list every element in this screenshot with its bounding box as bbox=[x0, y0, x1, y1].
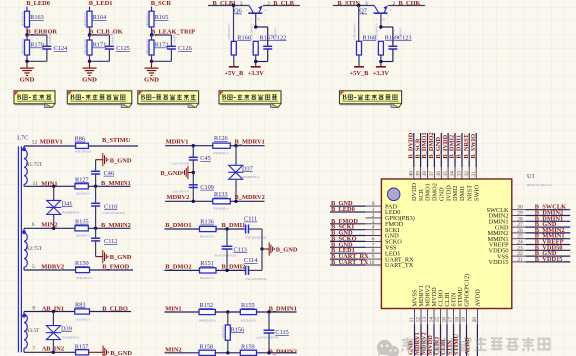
svg-text:B_DMI1: B_DMI1 bbox=[222, 222, 246, 229]
wire net B_SWCLK to pin 30 bbox=[526, 209, 571, 211]
pin 10 (UART_TX) bbox=[365, 264, 381, 266]
svg-text:2.2uF/10V/N0/X5R: 2.2uF/10V/N0/X5R bbox=[103, 212, 125, 215]
power +5V_B bbox=[229, 66, 239, 68]
wire B_DMO2 to R151 bbox=[165, 269, 200, 271]
wire net B_VREFP to pin 24 bbox=[526, 244, 571, 246]
wire R171 to ground node bbox=[89, 55, 91, 61]
svg-text:B_GND: B_GND bbox=[110, 157, 132, 164]
wire net B_UART_RX to pin 9 bbox=[330, 258, 365, 260]
svg-text:B_DMI2: B_DMI2 bbox=[449, 135, 456, 159]
svg-text:+3.3V: +3.3V bbox=[248, 70, 265, 77]
svg-text:5.1K(W)1%: 5.1K(W)1% bbox=[222, 325, 225, 339]
note N3 (yellow annotation) bbox=[138, 91, 199, 108]
wire pin7 to R157 bbox=[24, 351, 76, 353]
svg-text:MDRV2: MDRV2 bbox=[167, 194, 190, 201]
svg-text:B: B bbox=[70, 95, 75, 102]
wire C125 to ground node bbox=[108, 49, 110, 61]
svg-text:R156: R156 bbox=[231, 326, 245, 333]
svg-text:MIN1: MIN1 bbox=[165, 305, 181, 312]
svg-text:GPIO(PC12): GPIO(PC12) bbox=[464, 274, 471, 307]
wire pin11 to R127 bbox=[24, 185, 75, 187]
resistor R167 bbox=[253, 41, 258, 55]
pin 5 (GND) bbox=[365, 235, 381, 237]
svg-text:C115: C115 bbox=[275, 329, 288, 336]
resistor R168 bbox=[357, 41, 362, 55]
wire C124 to ground node bbox=[46, 49, 48, 61]
svg-text:UART_TX: UART_TX bbox=[385, 262, 414, 269]
svg-text:NRST: NRST bbox=[466, 185, 473, 201]
wire net B_MMIN1 to pin 25 bbox=[526, 238, 571, 240]
svg-text:47uF/10V/B0/X5R: 47uF/10V/B0/X5R bbox=[245, 278, 267, 281]
wire R158 to R159 bbox=[215, 352, 240, 354]
power +3.3V bbox=[376, 66, 386, 68]
pin 38 (DMO1) bbox=[427, 167, 429, 179]
svg-text:4.7K(1kW)1%: 4.7K(1kW)1% bbox=[353, 23, 356, 40]
svg-text:C111: C111 bbox=[244, 216, 257, 223]
svg-text:B_DMI2: B_DMI2 bbox=[222, 263, 246, 270]
power port B_GND (after R157) bbox=[89, 351, 96, 353]
svg-text:3: 3 bbox=[365, 1, 368, 7]
svg-text:B_DMIN1: B_DMIN1 bbox=[269, 305, 297, 312]
wire MIN1 to R152 bbox=[165, 311, 200, 313]
wire R150 to B_FMOD bbox=[90, 269, 134, 271]
capacitor C122 bbox=[263, 45, 272, 47]
pin 13 (MDRV2) bbox=[427, 309, 429, 325]
wire B_CLBI to Q6 pin 3 bbox=[208, 5, 249, 7]
wire MDRV1 bbox=[165, 145, 213, 147]
resistor R136 bbox=[200, 226, 217, 231]
wire MDRV2 bbox=[165, 200, 213, 202]
svg-text:3: 3 bbox=[240, 1, 243, 7]
capacitor C125 bbox=[105, 45, 114, 47]
svg-text:40: 40 bbox=[409, 171, 415, 177]
TVS diode D41 bbox=[53, 186, 55, 200]
wire MIN2 to R158 bbox=[165, 352, 200, 354]
svg-text:19: 19 bbox=[461, 317, 467, 323]
pin 19 (GPIO(PC12)) bbox=[466, 309, 468, 325]
wire C114 to B_GND corner bbox=[249, 269, 263, 271]
svg-text:B_GND: B_GND bbox=[160, 170, 182, 177]
svg-text:R171: R171 bbox=[93, 42, 107, 49]
svg-text:21: 21 bbox=[517, 257, 523, 263]
wire pin8 to R83 bbox=[24, 311, 75, 313]
capacitor C123 bbox=[388, 45, 397, 47]
wire net B_DMI1 to pin 33 bbox=[461, 133, 463, 167]
svg-text:U1: U1 bbox=[527, 173, 535, 180]
transformer L7C bbox=[17, 135, 43, 353]
svg-text:+3.3V: +3.3V bbox=[373, 70, 390, 77]
wire B_LED1 to R164 bbox=[89, 7, 91, 12]
svg-text:8: 8 bbox=[32, 306, 35, 312]
svg-text:1K(1kW)1%: 1K(1kW)1% bbox=[21, 11, 24, 26]
resistor R164 bbox=[87, 11, 92, 27]
wire net B_GND to pin 22 bbox=[526, 255, 571, 257]
svg-text:N2:75T: N2:75T bbox=[26, 246, 43, 252]
wire node to R171 bbox=[89, 35, 91, 40]
svg-text:1K(1kW)1%: 1K(1kW)1% bbox=[84, 11, 87, 26]
svg-text:C110: C110 bbox=[104, 203, 117, 210]
wire net AVDD from pin 20 bbox=[476, 324, 478, 356]
svg-text:B_MDRV1: B_MDRV1 bbox=[235, 138, 265, 145]
resistor R156 bbox=[227, 312, 229, 325]
pin 35 (IVDD) bbox=[447, 167, 449, 179]
svg-text:R83: R83 bbox=[75, 301, 86, 308]
note N5 (yellow annotation) bbox=[340, 91, 402, 108]
svg-text:20: 20 bbox=[472, 317, 478, 323]
svg-text:P6SMB6V8CA: P6SMB6V8CA bbox=[62, 211, 80, 214]
wire branch to C124 bbox=[27, 34, 47, 36]
ground GND bbox=[151, 61, 153, 68]
svg-text:PRC8AU4-QNA-A-E: PRC8AU4-QNA-A-E bbox=[527, 184, 552, 187]
wire D41 to MIN2 row bbox=[53, 214, 55, 228]
svg-text:D39: D39 bbox=[61, 325, 72, 332]
svg-text:R163: R163 bbox=[30, 14, 44, 21]
svg-text:AVDD: AVDD bbox=[475, 289, 482, 307]
svg-text:+5V_B: +5V_B bbox=[224, 70, 244, 77]
svg-text:B_NRST: B_NRST bbox=[463, 133, 470, 158]
winding N3:5T bbox=[24, 314, 27, 348]
svg-text:DMI2: DMI2 bbox=[452, 186, 459, 201]
svg-text:STIMU: STIMU bbox=[453, 334, 460, 355]
capacitor C124 bbox=[42, 45, 51, 47]
svg-text:R169: R169 bbox=[385, 34, 399, 41]
wire R152 to R155 bbox=[215, 311, 240, 313]
capacitor C111 bbox=[245, 225, 247, 234]
svg-text:7: 7 bbox=[32, 346, 35, 352]
pin 9 (UART_RX) bbox=[365, 258, 381, 260]
svg-text:R136: R136 bbox=[200, 219, 214, 226]
resistor R151 bbox=[200, 268, 217, 273]
wire net STIN from pin 17 bbox=[453, 324, 455, 356]
wire R126 to B_MDRV1 bbox=[230, 145, 264, 147]
svg-text:15: 15 bbox=[435, 317, 441, 323]
svg-text:=: = bbox=[251, 17, 253, 21]
wire base node to R169 and C123 bbox=[379, 25, 382, 28]
svg-text:4.7K(1kW)1%: 4.7K(1kW)1% bbox=[228, 23, 231, 40]
wire Q6 base lead bbox=[255, 13, 257, 27]
wire net B_VDD15 to pin 21 bbox=[526, 261, 571, 263]
pin 0 (PAD) bbox=[365, 205, 381, 207]
svg-text:B: B bbox=[17, 95, 22, 102]
winding N2:75T bbox=[24, 233, 27, 267]
wire net MDRV2 from pin 13 bbox=[427, 324, 429, 356]
svg-text:R166: R166 bbox=[237, 34, 251, 41]
svg-text:R164: R164 bbox=[93, 14, 107, 21]
svg-text:B_DMI1: B_DMI1 bbox=[456, 135, 463, 159]
svg-text:D41: D41 bbox=[62, 200, 73, 207]
svg-text:36: 36 bbox=[436, 171, 442, 177]
wire R167,C122 to +3.3V bbox=[267, 49, 269, 62]
wire net B_DMO1 to pin 38 bbox=[427, 133, 429, 167]
wire net MVDD from pin 14 bbox=[433, 324, 435, 356]
wire net B_GND to pin 0 bbox=[330, 205, 365, 207]
svg-text:38: 38 bbox=[422, 171, 428, 177]
svg-text:GND: GND bbox=[144, 77, 159, 84]
svg-text:R165: R165 bbox=[155, 14, 169, 21]
svg-text:B_SWIO: B_SWIO bbox=[470, 134, 477, 159]
pin 27 (GND) bbox=[512, 226, 526, 228]
pin 23 (VDD50) bbox=[512, 249, 526, 251]
svg-text:R127: R127 bbox=[75, 176, 89, 183]
pin 2 (GPIO(PB3)) bbox=[365, 217, 381, 219]
wire R169,C123 to +3.3V bbox=[392, 49, 394, 62]
svg-text:10K(2kW)1%: 10K(2kW)1% bbox=[213, 152, 230, 155]
svg-text:GND: GND bbox=[20, 77, 35, 84]
resistor R152 bbox=[199, 309, 215, 314]
capacitor C109 bbox=[189, 184, 198, 186]
svg-text:1K(1kW)1%: 1K(1kW)1% bbox=[76, 193, 91, 196]
svg-text:D37: D37 bbox=[242, 165, 253, 172]
svg-text:R155: R155 bbox=[241, 302, 255, 309]
svg-text:18: 18 bbox=[455, 317, 461, 323]
svg-text:10K(1kW)1%: 10K(1kW)1% bbox=[146, 38, 149, 55]
wire net B_SCR to pin 39 bbox=[420, 133, 422, 167]
wire pin5 to R150 bbox=[24, 269, 76, 271]
wire base node to R167 and C122 bbox=[254, 25, 257, 28]
resistor R166 bbox=[231, 41, 236, 55]
pin 29 (DMIN2) bbox=[512, 215, 526, 217]
watermark text 公众号丨充电储能之星 bbox=[402, 337, 550, 352]
svg-text:N3:5T: N3:5T bbox=[26, 328, 40, 334]
svg-text:R172: R172 bbox=[155, 42, 169, 49]
wire R163 to node bbox=[26, 27, 28, 35]
wire net B_DMO2 to pin 37 bbox=[433, 133, 435, 167]
wire net B_UART_TX to pin 10 bbox=[330, 264, 365, 266]
svg-text:GND: GND bbox=[82, 77, 97, 84]
svg-text:12: 12 bbox=[32, 139, 38, 145]
wire pin6 to R135 bbox=[24, 227, 75, 229]
wire R155 to B_DMIN1 bbox=[257, 311, 297, 313]
resistor R127 bbox=[75, 184, 88, 189]
svg-text:R86: R86 bbox=[75, 136, 86, 143]
wire node to R172 bbox=[151, 35, 153, 40]
TVS diode D37 bbox=[235, 146, 237, 166]
pin 30 (SWCLK) bbox=[512, 209, 526, 211]
svg-text:10K(2kW)1%: 10K(2kW)1% bbox=[213, 207, 230, 210]
capacitor C110 bbox=[95, 186, 97, 203]
pin 16 (CLBI) bbox=[446, 309, 448, 325]
resistor R169 bbox=[378, 41, 383, 55]
wire net B_SCKO to pin 6 bbox=[330, 240, 365, 242]
svg-text:1K(1kW)1%: 1K(1kW)1% bbox=[146, 11, 149, 26]
wire net B_MMIN2 to pin 26 bbox=[526, 232, 571, 234]
wire R159 to B_DMIN2 bbox=[257, 352, 297, 354]
svg-text:0R(1kW)1%: 0R(1kW)1% bbox=[200, 277, 215, 280]
svg-text:33: 33 bbox=[457, 171, 463, 177]
svg-text:P6SMB6V8CA: P6SMB6V8CA bbox=[242, 176, 260, 179]
svg-text:P6SMB6V8CA: P6SMB6V8CA bbox=[62, 336, 80, 339]
svg-text:C125: C125 bbox=[116, 45, 130, 52]
pin 14 (MVDD) bbox=[433, 309, 435, 325]
svg-text:C109: C109 bbox=[200, 184, 214, 191]
svg-text:DMI1: DMI1 bbox=[459, 186, 466, 201]
svg-text:10: 10 bbox=[369, 260, 375, 266]
pin 11 (MVSS) bbox=[414, 309, 416, 325]
svg-text:C112: C112 bbox=[104, 238, 117, 245]
resistor R135 bbox=[75, 226, 88, 231]
svg-text:11: 11 bbox=[409, 317, 415, 322]
power port B_GND (right of C111/C114) bbox=[260, 247, 263, 250]
wire B_LED0 to R163 bbox=[26, 7, 28, 12]
svg-text:0R(1kW)1%: 0R(1kW)1% bbox=[200, 236, 215, 239]
svg-text:4.7K(1kW)1%: 4.7K(1kW)1% bbox=[250, 23, 253, 40]
svg-text:31: 31 bbox=[471, 171, 477, 177]
pin 25 (MMIN1) bbox=[512, 238, 526, 240]
svg-text:5: 5 bbox=[32, 264, 35, 270]
wire R127 to B_MMIN1 bbox=[88, 185, 130, 187]
pin 34 (DMI2) bbox=[454, 167, 456, 179]
svg-text:B_DMO2: B_DMO2 bbox=[165, 263, 191, 270]
wire C46 to MMIN1 node bbox=[95, 174, 97, 186]
pin 15 (CLBO) bbox=[440, 309, 442, 325]
svg-text:100nF/50V: 100nF/50V bbox=[400, 27, 403, 40]
wire Q7 pin 2 to B_CHK bbox=[388, 5, 425, 7]
resistor R172 bbox=[149, 40, 154, 55]
wire branch to C126 bbox=[152, 34, 172, 36]
wire R135 to B_MMIN2 bbox=[88, 227, 130, 229]
svg-text:B_GND: B_GND bbox=[110, 254, 132, 261]
resistor R157 bbox=[76, 350, 89, 355]
wire net B_IVDD to pin 35 bbox=[447, 133, 449, 167]
wire net B_GND to pin 36 bbox=[440, 133, 442, 167]
svg-text:SWIO: SWIO bbox=[473, 184, 480, 201]
pin 31 (SWIO) bbox=[475, 167, 477, 179]
wire net B_NRST to pin 32 bbox=[468, 133, 470, 167]
wire net B_LED1 to pin 8 bbox=[330, 252, 365, 254]
svg-text:91R(2kW)1%: 91R(2kW)1% bbox=[241, 319, 257, 322]
resistor R171 bbox=[87, 40, 92, 55]
capacitor C126 bbox=[167, 45, 176, 47]
pin 40 (DVDD) bbox=[413, 167, 415, 179]
svg-text:39: 39 bbox=[415, 171, 421, 177]
svg-text:+5V_B: +5V_B bbox=[350, 70, 370, 77]
power +3.3V bbox=[251, 66, 261, 68]
note N4 (yellow annotation) bbox=[219, 91, 281, 108]
wire net GPIO(PC12) from pin 19 bbox=[466, 324, 468, 356]
pin 3 (FMOD) bbox=[365, 223, 381, 225]
note N1 (yellow annotation) bbox=[14, 91, 55, 108]
pin 17 (STIN) bbox=[453, 309, 455, 325]
wire net B_GND to pin 5 bbox=[330, 235, 365, 237]
pin 4 (SCKI) bbox=[365, 229, 381, 231]
wire net B_DMI2 to pin 34 bbox=[454, 133, 456, 167]
ground GND bbox=[89, 61, 91, 68]
svg-text:100nF/50V: 100nF/50V bbox=[112, 31, 115, 44]
pin 7 (VSS) bbox=[365, 246, 381, 248]
wire R168 to +5V_B bbox=[358, 55, 360, 67]
svg-text:17: 17 bbox=[448, 317, 454, 323]
pin 36 (GND) bbox=[440, 167, 442, 179]
svg-text:B_SCR: B_SCR bbox=[151, 0, 172, 7]
wire B_DMO1 to R136 bbox=[165, 228, 200, 230]
svg-text:B_GND: B_GND bbox=[276, 247, 298, 254]
svg-text:B_LED0: B_LED0 bbox=[26, 0, 50, 7]
ground GND bbox=[26, 61, 28, 68]
svg-text:10K(1kW)1%: 10K(1kW)1% bbox=[21, 38, 24, 55]
wire net B_FMOD to pin 3 bbox=[330, 223, 365, 225]
svg-text:100R(1kW)1%: 100R(1kW)1% bbox=[76, 277, 94, 280]
svg-text:6: 6 bbox=[32, 222, 35, 228]
resistor R86 bbox=[76, 143, 89, 148]
pin 6 (SCKO) bbox=[365, 240, 381, 242]
wire net GND from pin 11 bbox=[414, 324, 416, 356]
svg-text:47uF/10V/B0/X5R: 47uF/10V/B0/X5R bbox=[245, 237, 267, 240]
capacitor C112 bbox=[95, 228, 97, 238]
svg-text:37: 37 bbox=[429, 171, 435, 177]
pin 37 (DMO2) bbox=[433, 167, 435, 179]
wire R170 to ground node bbox=[26, 55, 28, 61]
svg-text:R126: R126 bbox=[214, 135, 228, 142]
wire net B_LED0 to pin 1 bbox=[330, 211, 365, 213]
svg-text:47uF/10V/B0/X5R: 47uF/10V/B0/X5R bbox=[215, 254, 237, 257]
pin 20 (AVDD) bbox=[476, 309, 478, 325]
power port B_GND (bottom of cap bus) bbox=[95, 241, 97, 257]
pin 21 (VDD15) bbox=[512, 261, 526, 263]
resistor R83 bbox=[75, 309, 90, 314]
op-amp U1 (MCU block) bbox=[381, 179, 511, 309]
svg-text:R133: R133 bbox=[214, 191, 228, 198]
wire Q7 base lead bbox=[380, 13, 382, 27]
capacitor C113 bbox=[226, 229, 228, 246]
wire net MDRV1 from pin 12 bbox=[420, 324, 422, 356]
svg-text:909R(2kW)1%: 909R(2kW)1% bbox=[199, 319, 217, 322]
svg-text:B_LED0: B_LED0 bbox=[331, 206, 355, 213]
capacitor C114 bbox=[245, 266, 247, 275]
wire net B_DVDD to pin 40 bbox=[413, 133, 415, 167]
capacitor C46 bbox=[91, 170, 100, 172]
svg-text:10K(1kW)1%: 10K(1kW)1% bbox=[84, 38, 87, 55]
wire net CLBO from pin 15 bbox=[440, 324, 442, 356]
svg-text:100nF/50V: 100nF/50V bbox=[49, 31, 52, 44]
svg-text:1K(1kW)1%: 1K(1kW)1% bbox=[76, 235, 91, 238]
svg-text:16: 16 bbox=[442, 317, 448, 323]
wire R151 to C114 bbox=[216, 269, 246, 271]
svg-text:R150: R150 bbox=[75, 260, 89, 267]
svg-text:R167: R167 bbox=[260, 34, 274, 41]
wire Q6 pin 2 to B_CLB bbox=[263, 5, 300, 7]
svg-text:12: 12 bbox=[416, 317, 422, 323]
svg-text:R159: R159 bbox=[241, 344, 255, 351]
svg-text:14: 14 bbox=[429, 317, 435, 323]
wire branch to C125 bbox=[90, 34, 110, 36]
wire net B_SWIO to pin 31 bbox=[475, 133, 477, 167]
svg-text:C46: C46 bbox=[104, 170, 115, 177]
svg-text:C114: C114 bbox=[244, 257, 258, 264]
svg-text:R135: R135 bbox=[75, 218, 89, 225]
resistor R158 bbox=[199, 350, 215, 355]
svg-text:N1:75T: N1:75T bbox=[26, 162, 43, 168]
pin 18 (STIMU) bbox=[459, 309, 461, 325]
resistor R165 bbox=[149, 11, 154, 27]
wire net B_GND to pin 27 bbox=[526, 226, 571, 228]
svg-text:B_LED1: B_LED1 bbox=[89, 0, 113, 7]
svg-text:R158: R158 bbox=[200, 344, 214, 351]
svg-text:100nF/50V: 100nF/50V bbox=[274, 27, 277, 40]
svg-text:C45: C45 bbox=[200, 155, 211, 162]
wire B_STIN to Q7 pin 3 bbox=[333, 5, 374, 7]
resistor R155 bbox=[240, 309, 256, 314]
wire net CLBI from pin 16 bbox=[446, 324, 448, 356]
svg-text:1K(1kW)1%: 1K(1kW)1% bbox=[76, 318, 91, 321]
pin 1 indicator circle bbox=[387, 188, 400, 201]
resistor R150 bbox=[76, 267, 90, 272]
svg-text:B_GND: B_GND bbox=[110, 350, 132, 356]
wire R164 to node bbox=[89, 27, 91, 35]
resistor R126 bbox=[213, 143, 231, 148]
svg-text:B_DMIN2: B_DMIN2 bbox=[269, 348, 297, 355]
pin 26 (MMIN2) bbox=[512, 232, 526, 234]
svg-text:35: 35 bbox=[443, 171, 449, 177]
